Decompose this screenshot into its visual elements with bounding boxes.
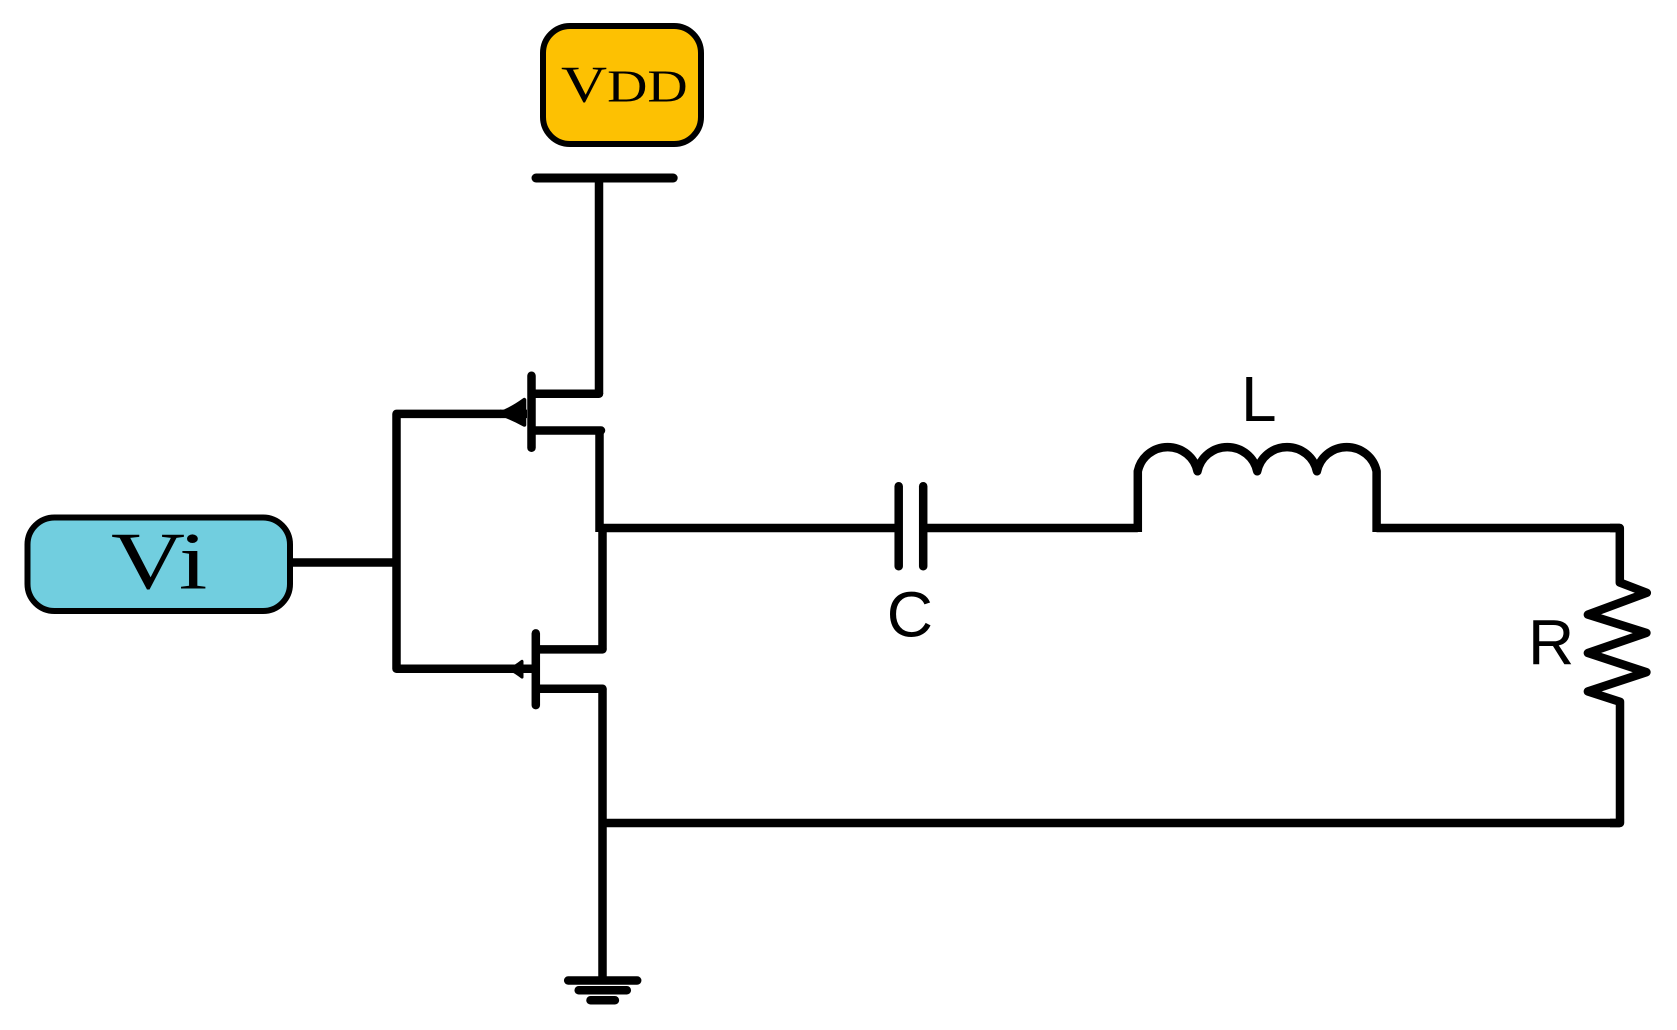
- wire NMOS source to ground: [598, 689, 607, 979]
- svg-text:L: L: [1241, 363, 1277, 435]
- wire output node to NMOS drain: [598, 524, 607, 649]
- inductor L: [1138, 447, 1377, 532]
- wire Vi to gate bus: [288, 558, 397, 567]
- wire VDD rail to PMOS source: [595, 178, 604, 394]
- svg-text:Vi: Vi: [111, 516, 207, 607]
- svg-text:VDD: VDD: [561, 55, 688, 113]
- svg-text:R: R: [1528, 606, 1574, 678]
- wire bottom rail resistor to NMOS source: [603, 819, 1620, 828]
- transistor M2 NMOS: [510, 633, 603, 705]
- capacitor C: [899, 486, 924, 566]
- resistor R: [1588, 528, 1647, 823]
- wire inductor to resistor: [1377, 524, 1620, 533]
- power label VDD: [543, 26, 701, 144]
- input label Vi: [28, 516, 291, 611]
- wire PMOS drain to output node: [595, 431, 604, 533]
- VDD rail symbol: [536, 174, 673, 183]
- wire gate bus Vi to both gates: [397, 414, 532, 669]
- svg-text:C: C: [887, 578, 933, 650]
- node Vout : output wire to capacitor: [599, 524, 897, 533]
- ground: [568, 981, 637, 1001]
- wire capacitor to inductor: [927, 524, 1138, 533]
- transistor M1 PMOS: [499, 376, 601, 448]
